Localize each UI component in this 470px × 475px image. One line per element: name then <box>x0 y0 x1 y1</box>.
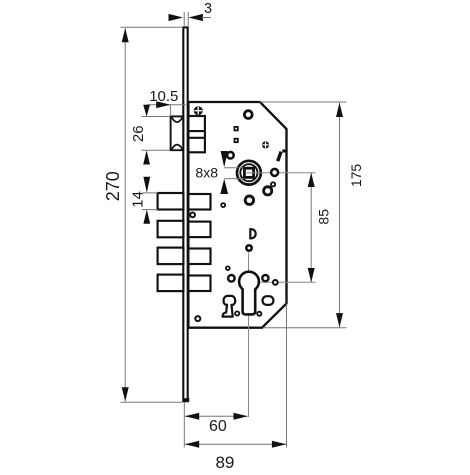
tiny ring left <box>221 203 225 207</box>
extension faceplate bottom left <box>183 403 185 448</box>
hole cluster ring <box>264 187 272 195</box>
hub centre line right <box>247 172 316 174</box>
dim 60: left arrow <box>185 413 199 420</box>
body plate outline <box>188 102 286 328</box>
dim 270: extension top <box>121 26 184 28</box>
dim 26: top arrow <box>143 105 150 117</box>
deadbolt 1 outside <box>158 193 184 210</box>
deadbolt 2 outside <box>158 221 184 238</box>
dim 175: bottom arrow <box>336 313 343 327</box>
deadbolt 2 inside <box>188 222 210 238</box>
dim 270: extension bottom <box>121 401 184 403</box>
dim 26: bottom arrow <box>143 150 150 164</box>
latch bolt <box>171 116 184 150</box>
euro cylinder hole <box>239 272 259 315</box>
svg-text:89: 89 <box>215 453 234 470</box>
ring bottom left of body <box>195 316 200 321</box>
dim 175: extension top <box>260 101 347 103</box>
dim 3: extension lines <box>183 12 185 27</box>
dim 8x8: bottom arrow <box>220 179 228 194</box>
dim 10.5: arrow <box>156 101 170 108</box>
dim 89: line <box>185 443 286 445</box>
dim 85: bottom arrow <box>308 268 315 282</box>
svg-text:85: 85 <box>316 209 332 225</box>
dim 89: left arrow <box>185 441 199 448</box>
deadbolt 1 inside <box>188 194 210 210</box>
svg-text:3: 3 <box>204 1 212 17</box>
spindle hub inner ring <box>240 164 257 181</box>
small ring far right <box>273 280 278 285</box>
square hole 1 <box>234 126 239 131</box>
tiny ring upper-left of cylinder <box>226 266 230 270</box>
hole ring below hub <box>245 196 253 204</box>
dim 270: line <box>124 28 126 401</box>
hole ring right of hub <box>271 169 278 176</box>
screw head right <box>262 141 269 148</box>
hole ring above cylinder <box>246 245 251 250</box>
cylinder centre line vertical <box>248 253 250 418</box>
dim 85: line <box>310 173 312 282</box>
small keyhole stem <box>222 304 232 317</box>
tiny ring bottom right <box>257 312 261 316</box>
hole cluster small ring <box>271 182 275 186</box>
svg-text:8x8: 8x8 <box>195 165 218 181</box>
hole ring top <box>244 111 252 119</box>
deadbolt 3 inside <box>188 249 210 265</box>
dim 8x8: tick bottom <box>224 178 243 180</box>
dim 175: top arrow <box>336 103 343 117</box>
D-shaped hole <box>250 229 255 238</box>
dim 26: tick bottom <box>142 149 171 151</box>
dim 8x8: tick top <box>224 167 243 169</box>
extension body right bottom <box>286 304 288 448</box>
svg-text:60: 60 <box>209 418 227 435</box>
small keyhole head <box>224 296 236 306</box>
edge ring on body left <box>190 213 195 218</box>
dim 60: right arrow <box>234 413 248 420</box>
edge notch <box>282 149 286 152</box>
latch follower box <box>188 116 205 152</box>
dim 270: bottom arrow <box>122 387 129 401</box>
square hole 2 <box>234 138 239 143</box>
hole ring left of hub <box>227 152 234 159</box>
deadbolt 4 outside <box>158 275 184 292</box>
dim 89: right arrow <box>272 441 286 448</box>
dim 3: left arrow <box>169 14 184 21</box>
dim 175: line <box>339 103 341 327</box>
oval slot <box>263 296 274 305</box>
deadbolt 3 outside <box>158 248 184 265</box>
dim 14: tick top <box>142 192 158 194</box>
dim 85: top arrow <box>308 173 315 187</box>
tiny ring below keyhole <box>235 311 239 315</box>
dim 14: bottom arrow <box>143 210 150 224</box>
faceplate bottom cap <box>183 398 190 401</box>
dim 10.5: extension <box>170 105 172 116</box>
dim 14: tick bottom <box>142 209 158 211</box>
dim 10.5: line <box>147 104 186 106</box>
svg-text:270: 270 <box>103 171 123 201</box>
svg-text:26: 26 <box>130 125 147 142</box>
screw head top-left <box>194 106 203 115</box>
dim 270: top arrow <box>122 28 129 42</box>
dim 175: extension bottom <box>263 327 347 329</box>
cylinder centre line horizontal <box>249 281 316 283</box>
ring right of cylinder <box>262 275 268 281</box>
spindle hub outer ring <box>237 161 261 185</box>
dim 60: line <box>185 415 248 417</box>
ring left of cylinder <box>228 275 235 282</box>
dim 26: tick top <box>142 116 171 118</box>
deadbolt 4 inside <box>188 276 210 292</box>
svg-text:14: 14 <box>130 191 147 208</box>
faceplate <box>183 27 187 401</box>
dim 8x8: top arrow <box>221 151 228 167</box>
tilted lever bar <box>278 152 281 162</box>
svg-text:10.5: 10.5 <box>149 88 178 105</box>
dim 14: top arrow <box>143 177 150 193</box>
svg-text:175: 175 <box>348 164 364 188</box>
spindle square 8x8 <box>244 168 253 177</box>
dim 3: right arrow <box>188 14 203 21</box>
